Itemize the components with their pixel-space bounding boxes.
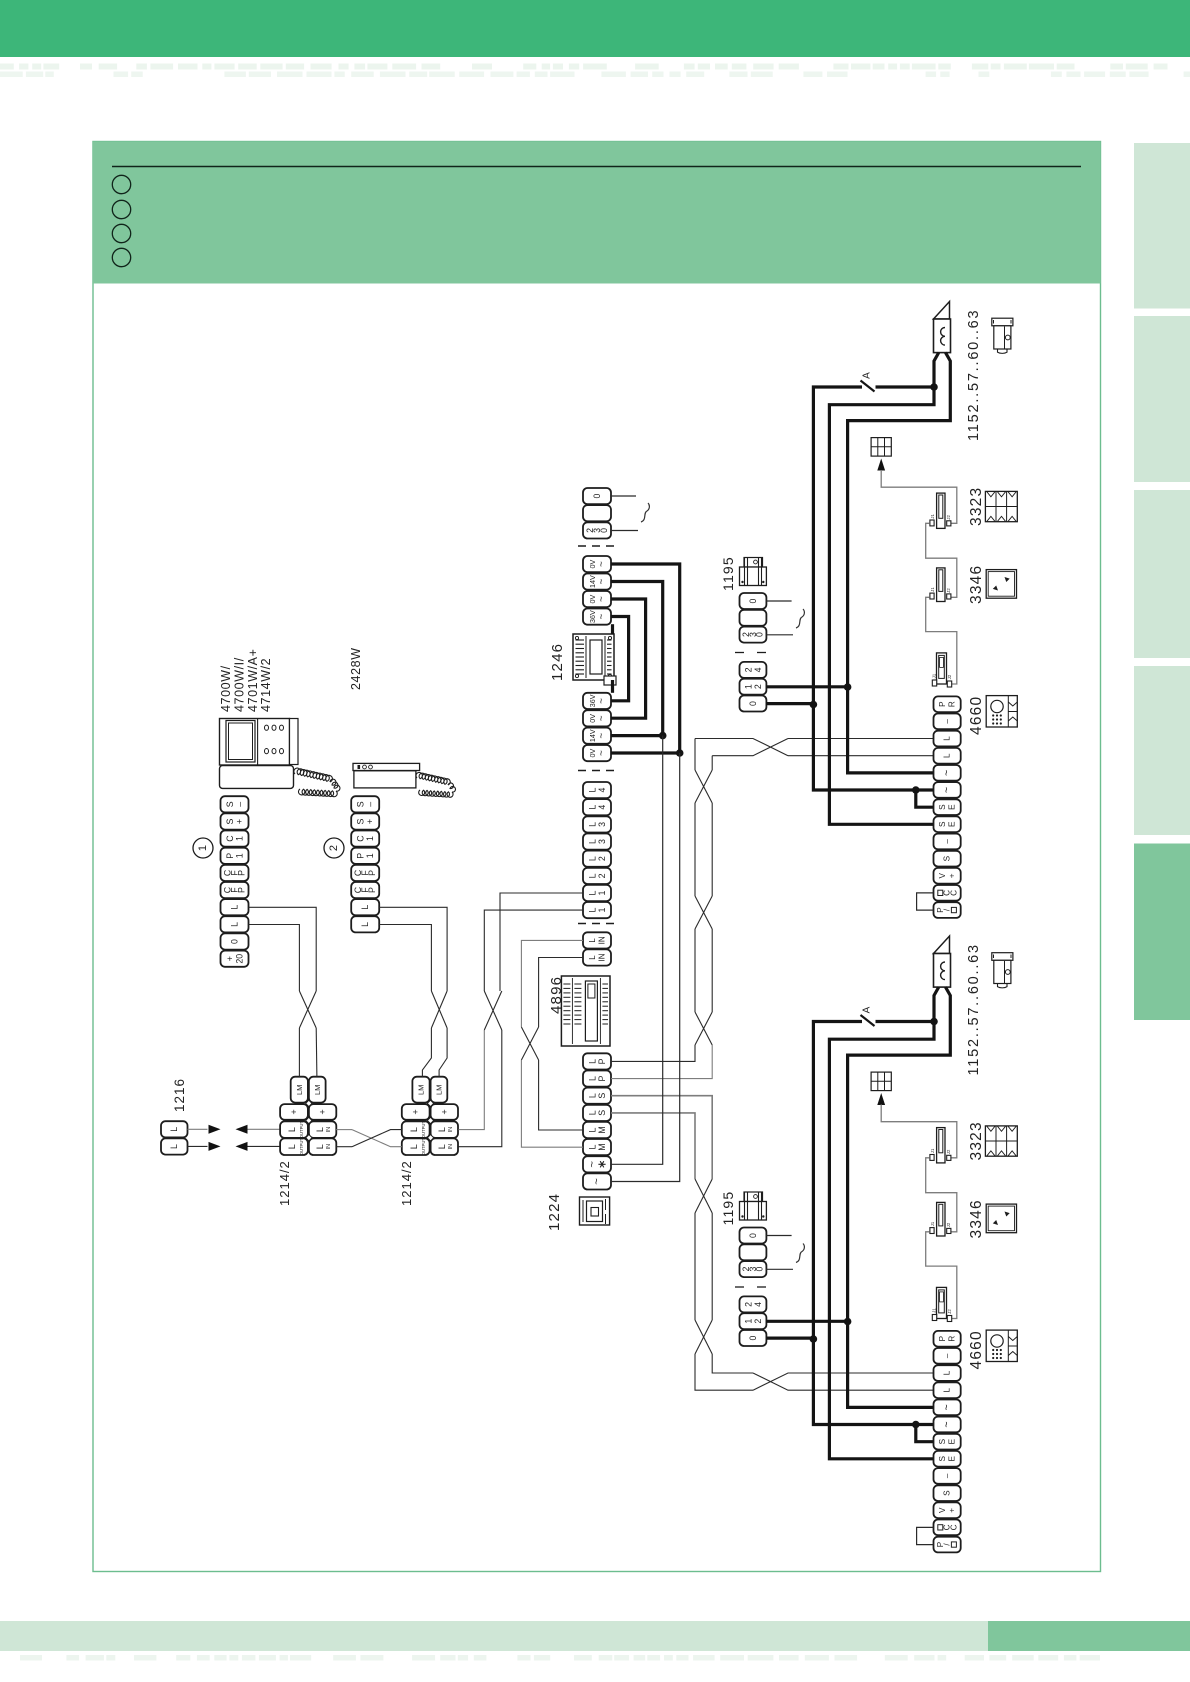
svg-text:1216: 1216: [172, 1078, 187, 1112]
svg-text:4896: 4896: [548, 976, 565, 1014]
svg-text:4: 4: [753, 667, 763, 672]
svg-text:2428W: 2428W: [349, 647, 363, 690]
svg-text:S: S: [938, 804, 947, 810]
svg-text:J2: J2: [946, 515, 951, 520]
svg-text:~: ~: [941, 1404, 953, 1410]
svg-text:L: L: [169, 1144, 179, 1149]
svg-text:IN: IN: [448, 1127, 454, 1133]
svg-text:~: ~: [587, 1161, 599, 1168]
svg-text:L: L: [588, 873, 598, 878]
svg-text:OUTPUT: OUTPUT: [421, 1121, 426, 1139]
svg-text:–: –: [943, 719, 952, 724]
svg-text:IN: IN: [448, 1144, 454, 1150]
svg-text:S: S: [225, 801, 235, 807]
svg-text:L: L: [588, 890, 598, 895]
svg-text:1: 1: [197, 845, 209, 851]
svg-text:L: L: [230, 905, 240, 910]
svg-text:A: A: [862, 372, 873, 379]
svg-text:E: E: [948, 1438, 957, 1444]
svg-text:J1: J1: [932, 1308, 937, 1313]
svg-text:–: –: [943, 839, 952, 844]
svg-text:3: 3: [597, 822, 607, 827]
svg-text:L: L: [588, 1059, 598, 1064]
svg-text:~: ~: [597, 561, 608, 567]
svg-text:LM: LM: [295, 1085, 304, 1095]
svg-text:1214/2: 1214/2: [399, 1160, 414, 1206]
svg-text:R: R: [948, 1336, 957, 1342]
svg-text:M: M: [597, 1126, 607, 1133]
svg-text:J2: J2: [947, 1309, 952, 1314]
svg-text:4714W/2: 4714W/2: [259, 658, 273, 712]
svg-text:L: L: [315, 1127, 325, 1132]
svg-text:4660: 4660: [968, 696, 985, 735]
svg-text:L: L: [588, 1127, 598, 1132]
svg-text:~: ~: [597, 596, 608, 602]
svg-text:~: ~: [597, 698, 608, 704]
svg-text:3323: 3323: [968, 487, 985, 526]
svg-text:L: L: [588, 856, 598, 861]
svg-text:V: V: [938, 873, 947, 879]
svg-text:1: 1: [597, 890, 607, 895]
svg-text:L: L: [588, 938, 597, 943]
svg-text:C: C: [949, 1524, 958, 1530]
svg-text:P: P: [237, 887, 247, 893]
svg-text:A: A: [862, 1006, 873, 1013]
svg-text:–: –: [943, 1353, 952, 1358]
svg-text:+: +: [411, 1109, 421, 1114]
svg-text:+: +: [318, 1109, 328, 1114]
svg-text:L: L: [588, 1093, 598, 1098]
svg-text:–: –: [365, 802, 375, 807]
svg-text:IN: IN: [598, 936, 607, 944]
svg-text:0: 0: [755, 632, 765, 637]
svg-text:L: L: [588, 805, 598, 810]
svg-text:L: L: [943, 1370, 952, 1375]
svg-text:2: 2: [597, 856, 607, 861]
svg-text:L: L: [360, 905, 370, 910]
svg-text:L: L: [287, 1127, 297, 1132]
svg-text:L: L: [230, 922, 240, 927]
svg-text:~: ~: [597, 750, 608, 756]
svg-text:L: L: [409, 1144, 419, 1149]
svg-text:P: P: [597, 1075, 607, 1081]
svg-text:0: 0: [230, 939, 240, 944]
svg-text:~: ~: [597, 715, 608, 721]
svg-text:+: +: [289, 1109, 299, 1114]
svg-text:1195: 1195: [720, 1191, 736, 1226]
svg-text:P: P: [597, 1058, 607, 1064]
svg-text:+: +: [439, 1109, 449, 1114]
svg-text:C: C: [949, 890, 958, 896]
svg-text:1: 1: [235, 836, 245, 841]
svg-text:L: L: [409, 1127, 419, 1132]
svg-text:C: C: [225, 835, 235, 842]
svg-text:L: L: [588, 839, 598, 844]
svg-text:0: 0: [748, 598, 758, 603]
svg-text:S: S: [356, 801, 366, 807]
svg-text:S: S: [597, 1093, 607, 1099]
svg-text:E: E: [948, 804, 957, 810]
svg-text:4: 4: [753, 1302, 763, 1307]
svg-text:P: P: [367, 870, 377, 876]
svg-text:V: V: [938, 1507, 947, 1513]
svg-text:0: 0: [755, 1267, 765, 1272]
svg-text:+: +: [235, 819, 245, 824]
svg-text:20: 20: [235, 954, 245, 964]
svg-text:–: –: [235, 802, 245, 807]
svg-text:2: 2: [328, 845, 340, 851]
svg-text:L: L: [437, 1127, 447, 1132]
svg-text:S: S: [938, 1438, 947, 1444]
svg-text:L: L: [943, 753, 952, 758]
svg-text:LM: LM: [417, 1085, 426, 1095]
svg-text:IN: IN: [326, 1127, 332, 1133]
svg-text:~: ~: [941, 1421, 953, 1427]
svg-text:P: P: [938, 1335, 947, 1341]
svg-text:~: ~: [941, 787, 953, 793]
svg-text:L: L: [588, 788, 598, 793]
svg-text:J1: J1: [930, 1148, 935, 1153]
svg-text:1: 1: [365, 853, 375, 858]
svg-text:L: L: [315, 1144, 325, 1149]
svg-text:3346: 3346: [968, 565, 985, 604]
svg-text:0: 0: [748, 1233, 758, 1238]
svg-text:1: 1: [365, 836, 375, 841]
svg-text:3346: 3346: [968, 1199, 985, 1238]
svg-text:4: 4: [597, 788, 607, 793]
svg-text:J2: J2: [947, 674, 952, 679]
svg-text:4701W/A+: 4701W/A+: [246, 648, 260, 712]
svg-text:E: E: [948, 1456, 957, 1462]
svg-text:P: P: [356, 853, 366, 859]
svg-text:L: L: [588, 1076, 598, 1081]
svg-text:L: L: [169, 1127, 179, 1132]
svg-text:P: P: [938, 701, 947, 707]
svg-text:L: L: [588, 1110, 598, 1115]
svg-text:S: S: [943, 1490, 952, 1496]
svg-text:LM: LM: [313, 1085, 322, 1095]
svg-text:L: L: [360, 922, 370, 927]
svg-text:P: P: [237, 870, 247, 876]
svg-text:+: +: [948, 873, 957, 878]
svg-text:0: 0: [592, 494, 602, 499]
svg-text:3323: 3323: [968, 1121, 985, 1160]
svg-text:L: L: [588, 908, 598, 913]
svg-text:L: L: [588, 1145, 598, 1150]
svg-text:OUTPUT: OUTPUT: [299, 1138, 304, 1156]
svg-text:S: S: [225, 818, 235, 824]
svg-text:0: 0: [748, 1335, 758, 1340]
svg-text:J1: J1: [930, 514, 935, 519]
svg-text:OUTPUT: OUTPUT: [299, 1121, 304, 1139]
svg-text:LM: LM: [435, 1085, 444, 1095]
svg-text:L: L: [437, 1144, 447, 1149]
svg-text:R: R: [948, 701, 957, 707]
svg-text:~: ~: [597, 578, 608, 584]
svg-text:2: 2: [753, 684, 763, 689]
svg-text:S: S: [938, 1456, 947, 1462]
svg-text:IN: IN: [598, 953, 607, 961]
svg-text:J2: J2: [946, 1149, 951, 1154]
svg-text:+: +: [365, 819, 375, 824]
svg-text:1224: 1224: [546, 1193, 563, 1231]
svg-text:OUTPUT: OUTPUT: [421, 1138, 426, 1156]
svg-text:S: S: [938, 821, 947, 827]
svg-text:J2: J2: [946, 1222, 951, 1227]
svg-text:0: 0: [748, 701, 758, 706]
svg-text:P: P: [225, 853, 235, 859]
svg-text:4: 4: [597, 805, 607, 810]
svg-text:2: 2: [753, 1319, 763, 1324]
svg-text:L: L: [588, 822, 598, 827]
svg-text:1195: 1195: [720, 556, 736, 591]
svg-text:~: ~: [591, 1178, 603, 1185]
svg-text:~: ~: [941, 770, 953, 776]
svg-text:IN: IN: [326, 1144, 332, 1150]
svg-text:2: 2: [597, 873, 607, 878]
svg-text:0: 0: [599, 528, 609, 533]
svg-text:J1: J1: [930, 587, 935, 592]
svg-text:1246: 1246: [549, 643, 566, 681]
svg-text:P: P: [367, 887, 377, 893]
svg-text:L: L: [943, 1387, 952, 1392]
svg-text:+: +: [225, 956, 235, 961]
svg-text:L: L: [287, 1144, 297, 1149]
svg-text:–: –: [943, 1473, 952, 1478]
svg-text:1214/2: 1214/2: [277, 1160, 292, 1206]
svg-text:+: +: [948, 1508, 957, 1513]
svg-text:J2: J2: [946, 588, 951, 593]
svg-text:L: L: [943, 736, 952, 741]
svg-text:4660: 4660: [968, 1330, 985, 1369]
svg-text:L: L: [588, 955, 597, 960]
svg-text:1: 1: [235, 853, 245, 858]
svg-text:S: S: [597, 1110, 607, 1116]
svg-text:3: 3: [597, 839, 607, 844]
svg-text:S: S: [943, 855, 952, 861]
svg-text:J1: J1: [930, 1221, 935, 1226]
svg-text:C: C: [356, 835, 366, 842]
svg-text:1: 1: [597, 908, 607, 913]
svg-text:4700W/I/: 4700W/I/: [232, 657, 246, 712]
svg-text:E: E: [948, 821, 957, 827]
svg-text:J1: J1: [932, 673, 937, 678]
svg-text:4700W/: 4700W/: [219, 665, 233, 712]
svg-text:M: M: [597, 1143, 607, 1150]
svg-text:S: S: [356, 818, 366, 824]
svg-text:~: ~: [597, 613, 608, 619]
svg-text:~: ~: [597, 733, 608, 739]
